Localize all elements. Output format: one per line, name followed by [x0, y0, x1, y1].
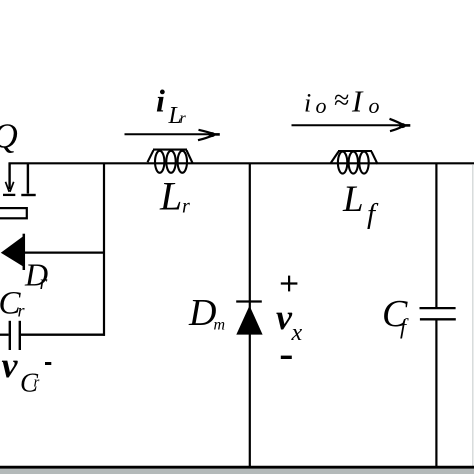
svg-text:r: r [40, 272, 48, 294]
svg-text:≈: ≈ [334, 85, 349, 116]
diode Dm [236, 302, 262, 335]
wire Cr left lead [0, 334, 9, 336]
wire left branch vertical [103, 164, 105, 336]
svg-text:I: I [351, 84, 364, 119]
arrow io [292, 119, 411, 131]
svg-text:L: L [159, 174, 182, 219]
svg-text:r: r [180, 110, 187, 127]
svg-text:o: o [369, 93, 380, 118]
svg-text:i: i [304, 89, 311, 118]
wire right branch vertical upper [435, 164, 437, 308]
wire load branch faint [472, 165, 474, 466]
wire Dr anode to left branch [25, 252, 105, 254]
svg-text:L: L [342, 179, 364, 220]
svg-text:v: v [276, 297, 293, 337]
capacitor Cf [420, 308, 456, 319]
wire bottom rail [0, 466, 474, 469]
svg-text:o: o [316, 93, 327, 118]
svg-text:x: x [291, 320, 303, 346]
transistor Q (switch) [0, 163, 36, 219]
svg-text:m: m [214, 317, 226, 334]
svg-text:r: r [182, 196, 190, 218]
svg-text:Q: Q [0, 117, 18, 156]
svg-text:r: r [18, 301, 26, 321]
svg-text:i: i [156, 82, 165, 118]
wire Cr right lead [21, 334, 105, 336]
wire middle branch vertical [249, 164, 251, 466]
label vx plus [281, 276, 298, 292]
svg-text:D: D [188, 292, 216, 334]
diode Dr [1, 234, 24, 270]
svg-text:r: r [34, 375, 40, 391]
arrow iLr [125, 130, 220, 140]
capacitor Cr [10, 321, 20, 350]
inductor Lr [148, 150, 193, 173]
wire right branch vertical lower [435, 320, 437, 466]
inductor Lf [331, 151, 378, 174]
wire top rail [9, 162, 474, 164]
svg-text:v: v [2, 345, 19, 385]
label vx minus [281, 356, 292, 359]
